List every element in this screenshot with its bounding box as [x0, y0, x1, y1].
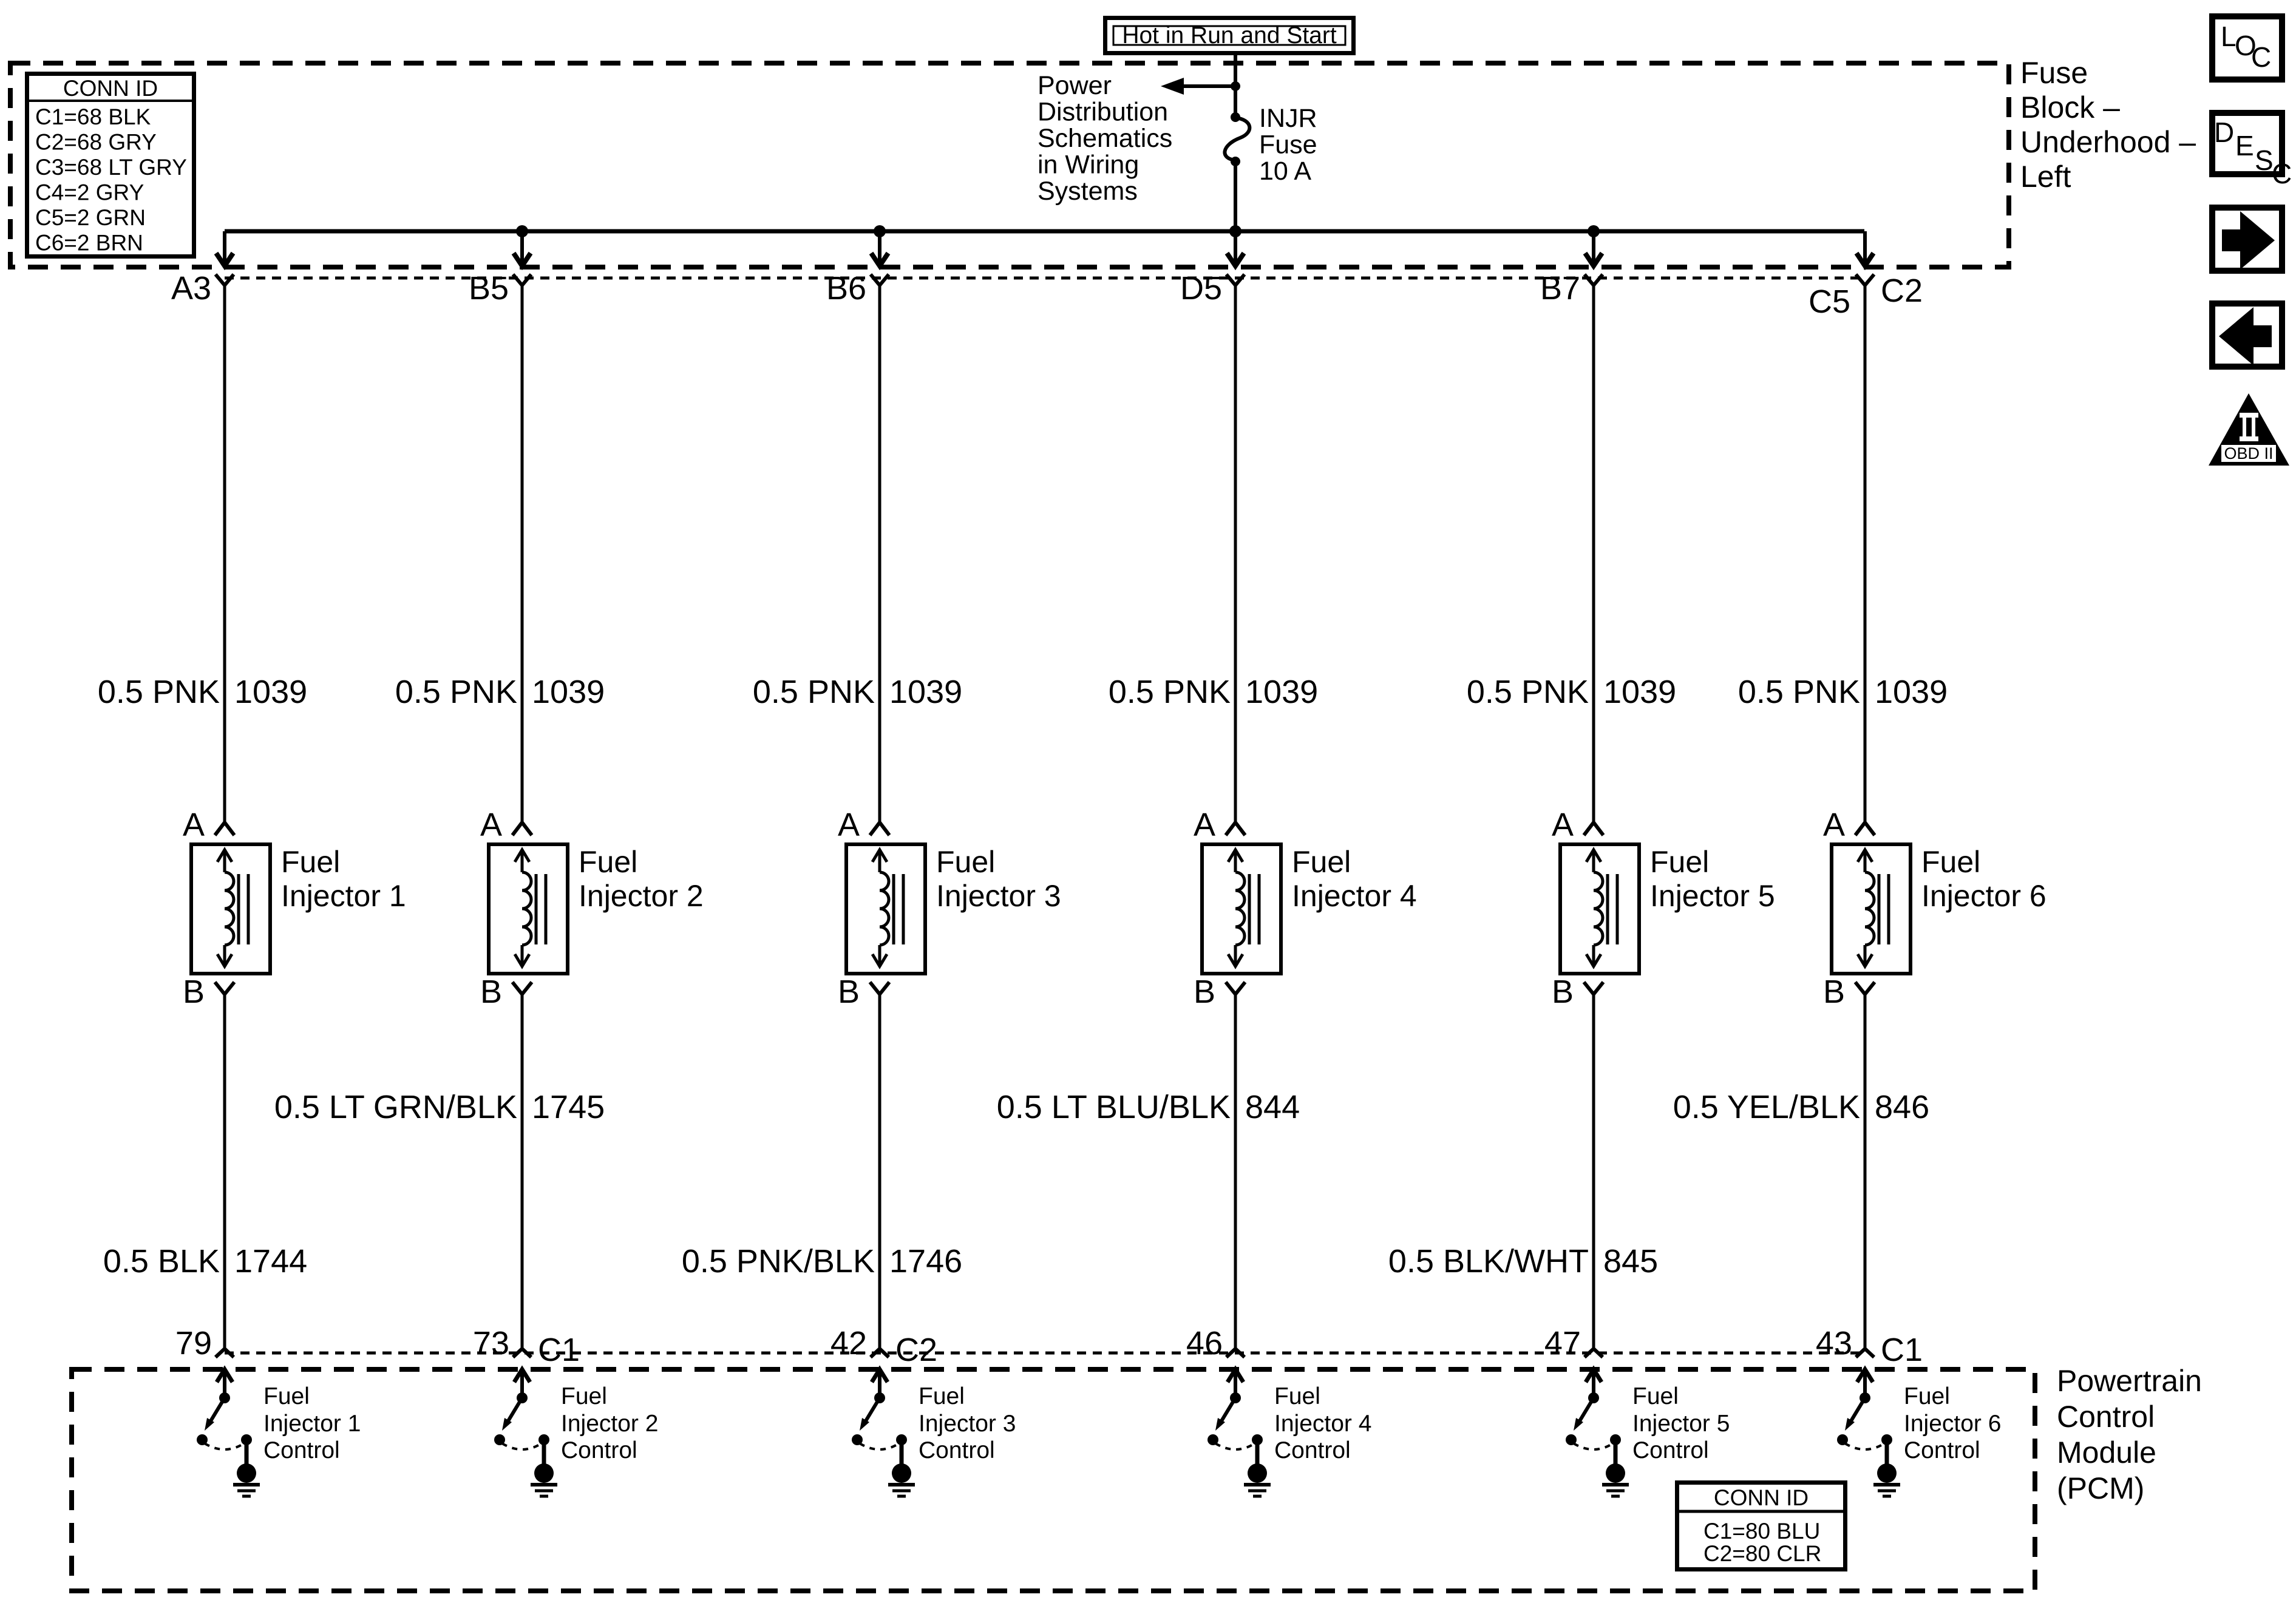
svg-text:0.5 PNK: 0.5 PNK [1109, 674, 1231, 710]
svg-text:Control: Control [1904, 1437, 1980, 1463]
svg-text:C1=68 BLK: C1=68 BLK [35, 104, 151, 129]
svg-text:Injector 5: Injector 5 [1632, 1411, 1730, 1437]
svg-text:B: B [1823, 974, 1845, 1010]
svg-text:Fuel: Fuel [1921, 845, 1980, 879]
svg-text:Distribution: Distribution [1038, 98, 1168, 127]
svg-text:B6: B6 [826, 270, 866, 307]
svg-text:INJR: INJR [1259, 104, 1317, 133]
svg-text:B: B [480, 974, 502, 1010]
svg-text:Injector 4: Injector 4 [1274, 1411, 1371, 1437]
svg-text:Injector 4: Injector 4 [1292, 879, 1417, 913]
svg-text:1039: 1039 [889, 674, 962, 710]
svg-text:B: B [183, 974, 205, 1010]
svg-text:Hot in Run and Start: Hot in Run and Start [1122, 22, 1337, 49]
svg-text:0.5 PNK: 0.5 PNK [1738, 674, 1860, 710]
svg-text:Underhood –: Underhood – [2020, 125, 2196, 159]
svg-text:Fuel: Fuel [561, 1383, 607, 1409]
svg-text:C2: C2 [1881, 273, 1923, 309]
svg-text:Injector 2: Injector 2 [561, 1411, 658, 1437]
svg-text:B5: B5 [469, 270, 509, 307]
svg-text:Module: Module [2057, 1436, 2156, 1470]
svg-text:Fuel: Fuel [281, 845, 340, 879]
svg-text:Fuel: Fuel [1632, 1383, 1679, 1409]
svg-text:(PCM): (PCM) [2057, 1471, 2144, 1505]
svg-text:Fuel: Fuel [936, 845, 995, 879]
svg-text:A3: A3 [171, 270, 211, 307]
svg-text:Fuel: Fuel [919, 1383, 965, 1409]
svg-text:A: A [838, 807, 860, 843]
svg-text:Systems: Systems [1038, 177, 1138, 206]
svg-text:C5=2 GRN: C5=2 GRN [35, 205, 146, 230]
svg-text:CONN ID: CONN ID [63, 76, 158, 101]
svg-text:C4=2 GRY: C4=2 GRY [35, 180, 144, 205]
svg-text:E: E [2235, 130, 2254, 161]
svg-text:S: S [2255, 144, 2274, 176]
svg-text:0.5 LT BLU/BLK: 0.5 LT BLU/BLK [997, 1089, 1231, 1125]
svg-text:42: 42 [830, 1325, 867, 1361]
svg-text:D: D [2214, 117, 2234, 148]
svg-text:L: L [2221, 21, 2237, 52]
svg-text:0.5 PNK: 0.5 PNK [1467, 674, 1589, 710]
svg-text:Left: Left [2020, 160, 2071, 194]
svg-text:Injector 1: Injector 1 [281, 879, 406, 913]
svg-text:C6=2 BRN: C6=2 BRN [35, 231, 143, 256]
svg-text:A: A [183, 807, 205, 843]
svg-text:10 A: 10 A [1259, 157, 1311, 186]
svg-text:A: A [1823, 807, 1845, 843]
svg-text:Injector 6: Injector 6 [1904, 1411, 2001, 1437]
svg-text:Fuel: Fuel [263, 1383, 310, 1409]
svg-text:1744: 1744 [234, 1243, 307, 1280]
svg-text:Powertrain: Powertrain [2057, 1364, 2202, 1398]
svg-text:B: B [1194, 974, 1215, 1010]
svg-text:0.5 BLK/WHT: 0.5 BLK/WHT [1388, 1243, 1589, 1280]
svg-text:Control: Control [2057, 1400, 2155, 1434]
svg-text:A: A [1194, 807, 1215, 843]
svg-text:46: 46 [1186, 1325, 1223, 1361]
svg-text:43: 43 [1816, 1325, 1852, 1361]
svg-text:845: 845 [1603, 1243, 1658, 1280]
svg-text:1039: 1039 [1875, 674, 1948, 710]
svg-text:Block –: Block – [2020, 90, 2120, 124]
svg-text:846: 846 [1875, 1089, 1929, 1125]
svg-text:79: 79 [175, 1325, 212, 1361]
svg-text:Control: Control [263, 1437, 340, 1463]
svg-text:Fuel: Fuel [1274, 1383, 1320, 1409]
svg-text:D5: D5 [1180, 270, 1222, 307]
svg-text:Control: Control [1632, 1437, 1709, 1463]
svg-text:B7: B7 [1540, 270, 1580, 307]
svg-text:Control: Control [919, 1437, 995, 1463]
svg-text:Fuse: Fuse [1259, 131, 1317, 160]
svg-text:C1: C1 [1881, 1332, 1923, 1368]
svg-text:844: 844 [1245, 1089, 1300, 1125]
svg-text:1745: 1745 [532, 1089, 605, 1125]
svg-text:C: C [2272, 158, 2292, 189]
svg-text:A: A [480, 807, 502, 843]
svg-text:C1: C1 [538, 1332, 580, 1368]
svg-text:Control: Control [561, 1437, 637, 1463]
svg-text:47: 47 [1544, 1325, 1581, 1361]
svg-text:C: C [2251, 41, 2271, 73]
svg-text:C1=80 BLU: C1=80 BLU [1703, 1519, 1820, 1544]
svg-text:1039: 1039 [1245, 674, 1318, 710]
svg-text:Fuel: Fuel [1650, 845, 1709, 879]
svg-text:1039: 1039 [1603, 674, 1676, 710]
svg-text:C5: C5 [1809, 283, 1850, 320]
svg-text:73: 73 [473, 1325, 509, 1361]
svg-text:1746: 1746 [889, 1243, 962, 1280]
svg-text:0.5 BLK: 0.5 BLK [103, 1243, 220, 1280]
svg-text:Injector 6: Injector 6 [1921, 879, 2046, 913]
svg-text:in Wiring: in Wiring [1038, 151, 1139, 180]
svg-text:0.5 PNK: 0.5 PNK [395, 674, 517, 710]
svg-text:Control: Control [1274, 1437, 1351, 1463]
svg-text:Fuel: Fuel [579, 845, 637, 879]
svg-text:Injector 2: Injector 2 [579, 879, 704, 913]
svg-text:Injector 3: Injector 3 [936, 879, 1061, 913]
svg-text:Power: Power [1038, 71, 1112, 100]
svg-text:Injector 5: Injector 5 [1650, 879, 1775, 913]
svg-text:0.5 PNK: 0.5 PNK [98, 674, 220, 710]
svg-text:1039: 1039 [234, 674, 307, 710]
svg-text:C3=68 LT GRY: C3=68 LT GRY [35, 155, 187, 180]
svg-text:Injector 1: Injector 1 [263, 1411, 361, 1437]
svg-text:Injector 3: Injector 3 [919, 1411, 1016, 1437]
svg-text:Schematics: Schematics [1038, 124, 1172, 153]
svg-text:B: B [838, 974, 860, 1010]
svg-text:0.5 LT GRN/BLK: 0.5 LT GRN/BLK [274, 1089, 517, 1125]
svg-text:B: B [1552, 974, 1574, 1010]
svg-text:1039: 1039 [532, 674, 605, 710]
svg-text:C2=68 GRY: C2=68 GRY [35, 130, 157, 155]
svg-text:Fuel: Fuel [1292, 845, 1351, 879]
svg-text:OBD II: OBD II [2224, 444, 2273, 463]
svg-text:Fuse: Fuse [2020, 56, 2088, 90]
svg-text:0.5 PNK: 0.5 PNK [753, 674, 875, 710]
svg-text:0.5 PNK/BLK: 0.5 PNK/BLK [682, 1243, 875, 1280]
svg-text:0.5 YEL/BLK: 0.5 YEL/BLK [1673, 1089, 1860, 1125]
svg-text:C2=80 CLR: C2=80 CLR [1703, 1541, 1821, 1566]
svg-text:C2: C2 [895, 1332, 937, 1368]
svg-text:CONN ID: CONN ID [1714, 1485, 1809, 1510]
svg-text:Fuel: Fuel [1904, 1383, 1950, 1409]
svg-text:A: A [1552, 807, 1574, 843]
